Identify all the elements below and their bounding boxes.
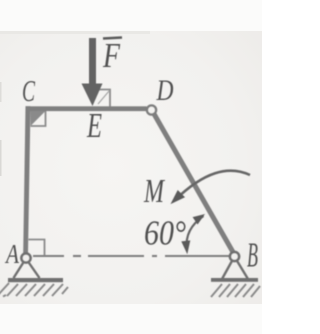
hinge circle at D — [147, 105, 156, 114]
label C — [22, 73, 35, 108]
label A — [4, 239, 19, 269]
60-degree angle arc with arrowheads — [181, 214, 205, 254]
rigid corner mark at C — [31, 111, 46, 126]
ground at A — [0, 278, 68, 297]
label B — [247, 236, 258, 275]
svg-text:A: A — [4, 239, 19, 269]
svg-text:F: F — [102, 36, 120, 75]
pin support B: hinge circle — [230, 252, 239, 261]
right-angle mark at A — [29, 240, 45, 256]
svg-text:D: D — [156, 74, 174, 107]
label E — [86, 106, 102, 145]
scan artifact: left edge faint streak — [0, 82, 2, 176]
ground at B — [211, 278, 260, 297]
svg-text:60°: 60° — [144, 214, 186, 253]
right-angle mark at E — [97, 90, 111, 107]
dash-dot center line A to B — [33, 255, 229, 257]
label M — [143, 173, 165, 210]
pin support A: hinge circle — [21, 253, 30, 262]
label 60deg — [144, 214, 186, 253]
pin support B: triangle — [222, 260, 248, 279]
member CD (top horizontal bar) — [26, 106, 147, 111]
moment M arc arrow — [171, 171, 251, 204]
svg-text:B: B — [247, 236, 258, 275]
member DB (inclined bar) — [154, 113, 234, 253]
svg-text:M: M — [143, 173, 165, 210]
svg-text:E: E — [86, 106, 102, 145]
member CA (left vertical bar) — [23, 106, 30, 253]
force F arrow — [82, 38, 103, 106]
label D — [156, 74, 174, 107]
pin support A: triangle — [14, 262, 40, 279]
label F with overbar — [102, 36, 122, 75]
svg-text:C: C — [22, 73, 35, 108]
